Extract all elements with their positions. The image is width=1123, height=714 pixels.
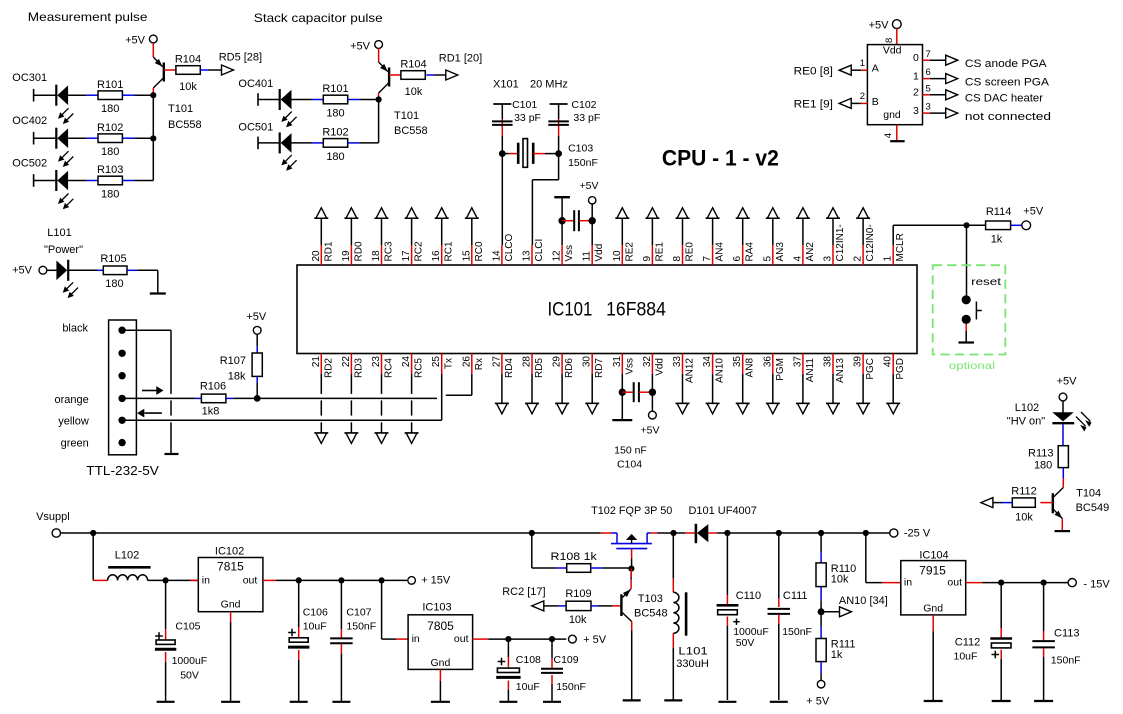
svg-text:7: 7	[702, 256, 713, 262]
svg-text:16: 16	[431, 250, 442, 262]
svg-text:Vdd: Vdd	[594, 244, 605, 262]
svg-text:optional: optional	[949, 360, 995, 372]
svg-text:1: 1	[883, 256, 894, 262]
svg-text:50V: 50V	[180, 670, 199, 682]
svg-text:10uF: 10uF	[954, 651, 978, 663]
svg-text:Gnd: Gnd	[923, 603, 943, 615]
svg-text:RE1 [9]: RE1 [9]	[794, 99, 833, 111]
svg-text:AN12: AN12	[685, 358, 696, 383]
svg-text:AN8: AN8	[745, 358, 756, 378]
svg-text:8: 8	[884, 38, 895, 43]
svg-text:Gnd: Gnd	[430, 657, 450, 669]
svg-text:OC402: OC402	[12, 115, 47, 127]
svg-text:MCLR: MCLR	[895, 233, 906, 261]
svg-text:Measurement pulse: Measurement pulse	[28, 10, 148, 24]
svg-text:OC501: OC501	[238, 121, 273, 133]
svg-text:RE2: RE2	[624, 242, 635, 262]
svg-text:C104: C104	[617, 459, 642, 471]
svg-text:OC502: OC502	[12, 158, 47, 170]
svg-text:T101: T101	[394, 110, 419, 122]
svg-text:10k: 10k	[405, 86, 423, 98]
svg-text:B: B	[872, 96, 879, 108]
svg-text:PGM: PGM	[775, 358, 786, 381]
svg-text:RC0: RC0	[474, 241, 485, 261]
svg-text:T101: T101	[168, 103, 193, 115]
svg-text:C101: C101	[512, 99, 537, 111]
svg-text:BC548: BC548	[634, 608, 668, 620]
svg-text:11: 11	[582, 251, 593, 262]
svg-text:R101: R101	[97, 79, 123, 91]
svg-text:RC2 [17]: RC2 [17]	[502, 586, 545, 598]
svg-text:+5V: +5V	[580, 180, 599, 192]
svg-text:180: 180	[326, 108, 344, 120]
svg-text:Tx: Tx	[444, 358, 455, 369]
svg-text:18k: 18k	[228, 371, 246, 383]
svg-text:Vsuppl: Vsuppl	[36, 511, 70, 523]
svg-text:-25 V: -25 V	[904, 528, 931, 540]
svg-text:1k: 1k	[991, 233, 1003, 245]
svg-text:33 pF: 33 pF	[514, 112, 541, 124]
svg-text:in: in	[904, 577, 912, 589]
svg-text:not connected: not connected	[965, 111, 1051, 123]
svg-text:gnd: gnd	[883, 109, 901, 121]
svg-text:AN11: AN11	[805, 358, 816, 383]
svg-text:RD3: RD3	[353, 358, 364, 378]
svg-text:9: 9	[642, 256, 653, 262]
svg-text:+5V: +5V	[1023, 206, 1044, 218]
svg-text:150nF: 150nF	[556, 681, 586, 693]
svg-text:C109: C109	[554, 654, 579, 666]
svg-text:35: 35	[732, 356, 743, 368]
svg-text:PGD: PGD	[895, 358, 906, 380]
svg-text:330uH: 330uH	[676, 658, 709, 670]
svg-text:Vdd: Vdd	[883, 45, 902, 57]
svg-text:23: 23	[371, 356, 382, 368]
svg-text:out: out	[454, 633, 469, 645]
svg-text:7: 7	[926, 49, 931, 60]
svg-text:C111: C111	[783, 590, 808, 602]
svg-text:15: 15	[461, 250, 472, 262]
svg-text:IC102: IC102	[215, 546, 244, 558]
svg-text:C106: C106	[303, 607, 328, 619]
svg-text:in: in	[202, 575, 210, 587]
svg-text:+ 15V: + 15V	[421, 575, 451, 587]
svg-text:CLCO: CLCO	[504, 233, 515, 261]
svg-text:RD4: RD4	[504, 358, 515, 378]
svg-text:- 15V: - 15V	[1083, 579, 1110, 591]
svg-text:R108 1k: R108 1k	[551, 551, 598, 563]
svg-text:4: 4	[792, 256, 803, 262]
svg-text:Vdd: Vdd	[654, 358, 665, 376]
svg-text:C102: C102	[571, 99, 596, 111]
svg-text:L101: L101	[678, 646, 707, 658]
svg-text:150nF: 150nF	[1051, 655, 1081, 667]
svg-text:T102 FQP 3P 50: T102 FQP 3P 50	[591, 505, 672, 517]
svg-text:yellow: yellow	[58, 416, 89, 428]
svg-text:R101: R101	[322, 83, 348, 95]
svg-text:33: 33	[672, 356, 683, 368]
svg-text:IC104: IC104	[919, 550, 948, 562]
svg-text:AN10: AN10	[715, 358, 726, 383]
svg-text:10k: 10k	[831, 574, 849, 586]
svg-text:RD1 [20]: RD1 [20]	[439, 53, 482, 65]
svg-text:29: 29	[552, 356, 563, 368]
svg-text:+5V: +5V	[1057, 376, 1078, 388]
svg-text:27: 27	[491, 356, 502, 368]
svg-text:CS DAC heater: CS DAC heater	[965, 93, 1043, 105]
svg-text:10uF: 10uF	[516, 681, 540, 693]
svg-text:50V: 50V	[736, 637, 755, 649]
svg-text:12: 12	[552, 250, 563, 262]
svg-text:A: A	[872, 63, 879, 75]
svg-text:RD7: RD7	[594, 358, 605, 378]
svg-text:R112: R112	[1011, 485, 1036, 497]
svg-text:CS screen PGA: CS screen PGA	[965, 76, 1050, 88]
svg-text:Vss: Vss	[624, 358, 635, 375]
svg-text:RC4: RC4	[384, 358, 395, 378]
svg-text:CPU - 1 - v2: CPU - 1 - v2	[662, 146, 779, 171]
svg-text:AN2: AN2	[805, 242, 816, 262]
svg-text:RE1: RE1	[654, 242, 665, 262]
svg-text:R105: R105	[100, 253, 126, 265]
svg-text:10k: 10k	[179, 81, 197, 93]
svg-text:"Power": "Power"	[44, 244, 83, 256]
svg-text:3: 3	[823, 256, 834, 262]
svg-text:10k: 10k	[569, 614, 587, 626]
svg-text:L101: L101	[47, 227, 71, 239]
svg-text:TTL-232-5V: TTL-232-5V	[86, 464, 159, 478]
svg-text:+5V: +5V	[869, 20, 890, 32]
svg-text:AN13: AN13	[835, 358, 846, 383]
svg-text:31: 31	[612, 356, 623, 368]
svg-text:Stack capacitor pulse: Stack capacitor pulse	[254, 11, 383, 25]
svg-text:RC2: RC2	[414, 241, 425, 261]
svg-text:1k8: 1k8	[202, 406, 220, 418]
svg-text:1000uF: 1000uF	[172, 655, 208, 667]
svg-text:C113: C113	[1054, 628, 1079, 640]
svg-text:38: 38	[823, 356, 834, 368]
svg-text:C103: C103	[568, 143, 593, 155]
svg-text:IC103: IC103	[422, 602, 451, 614]
svg-text:7815: 7815	[217, 560, 244, 574]
svg-text:7915: 7915	[919, 564, 946, 578]
svg-text:+5V: +5V	[350, 41, 371, 53]
svg-text:R106: R106	[200, 381, 226, 393]
svg-text:30: 30	[582, 356, 593, 368]
svg-text:R113: R113	[1028, 448, 1053, 460]
svg-text:10: 10	[612, 250, 623, 262]
svg-text:34: 34	[702, 356, 713, 368]
svg-text:"HV on": "HV on"	[1007, 416, 1045, 428]
svg-text:RD5 [28]: RD5 [28]	[219, 52, 262, 64]
svg-text:R109: R109	[565, 588, 591, 600]
svg-text:21: 21	[311, 356, 322, 368]
svg-text:in: in	[412, 633, 420, 645]
svg-text:13: 13	[522, 250, 533, 262]
svg-text:RD1: RD1	[323, 241, 334, 261]
svg-text:150nF: 150nF	[568, 157, 598, 169]
svg-text:1k: 1k	[831, 649, 843, 661]
svg-text:2: 2	[853, 256, 864, 262]
svg-text:24: 24	[401, 356, 412, 368]
svg-text:6: 6	[732, 256, 743, 262]
svg-text:OC401: OC401	[238, 78, 273, 90]
svg-text:5: 5	[926, 83, 931, 94]
svg-text:180: 180	[1034, 460, 1052, 472]
svg-text:RD5: RD5	[534, 358, 545, 378]
svg-text:5: 5	[762, 256, 773, 262]
svg-text:180: 180	[101, 103, 119, 115]
svg-text:R104: R104	[400, 59, 426, 71]
svg-text:T103: T103	[638, 593, 663, 605]
svg-text:22: 22	[341, 356, 352, 368]
svg-text:AN10 [34]: AN10 [34]	[839, 595, 888, 607]
svg-text:2: 2	[860, 91, 865, 102]
svg-text:BC558: BC558	[394, 125, 428, 137]
svg-text:10k: 10k	[1015, 512, 1033, 524]
svg-text:AN3: AN3	[775, 242, 786, 262]
svg-text:RD0: RD0	[353, 241, 364, 261]
svg-text:150nF: 150nF	[346, 621, 376, 633]
svg-text:0: 0	[913, 52, 919, 64]
svg-text:18: 18	[371, 250, 382, 262]
svg-text:R102: R102	[97, 122, 123, 134]
svg-text:BC558: BC558	[168, 119, 202, 131]
svg-text:39: 39	[853, 356, 864, 368]
svg-text:CLCI: CLCI	[534, 239, 545, 262]
svg-text:20: 20	[311, 250, 322, 262]
svg-text:36: 36	[762, 356, 773, 368]
svg-text:out: out	[243, 575, 258, 587]
svg-text:PGC: PGC	[865, 358, 876, 380]
svg-text:RE0 [8]: RE0 [8]	[794, 65, 833, 77]
svg-text:Rx: Rx	[474, 358, 485, 370]
svg-text:T104: T104	[1076, 488, 1101, 500]
svg-text:C12IN1-: C12IN1-	[835, 224, 846, 261]
svg-text:37: 37	[792, 356, 803, 368]
svg-text:4: 4	[883, 133, 894, 138]
svg-text:3: 3	[926, 102, 931, 113]
svg-text:180: 180	[105, 278, 123, 290]
svg-text:+5V: +5V	[12, 265, 33, 277]
svg-text:14: 14	[491, 250, 502, 262]
svg-text:150 nF: 150 nF	[614, 445, 647, 457]
svg-text:+ 5V: + 5V	[806, 696, 830, 708]
svg-text:R103: R103	[97, 164, 123, 176]
svg-text:3: 3	[913, 105, 919, 117]
svg-text:C110: C110	[736, 590, 761, 602]
svg-text:RD2: RD2	[323, 358, 334, 378]
svg-text:RC3: RC3	[384, 241, 395, 261]
svg-text:1: 1	[913, 71, 919, 83]
svg-text:C12IN0-: C12IN0-	[865, 224, 876, 261]
svg-text:Gnd: Gnd	[221, 599, 241, 611]
svg-text:RA4: RA4	[745, 242, 756, 262]
svg-text:19: 19	[341, 250, 352, 262]
svg-text:green: green	[61, 438, 89, 450]
svg-text:1: 1	[860, 58, 865, 69]
svg-text:20 MHz: 20 MHz	[530, 79, 568, 91]
svg-text:150nF: 150nF	[782, 626, 812, 638]
svg-text:OC301: OC301	[12, 72, 47, 84]
svg-text:L102: L102	[115, 550, 139, 562]
svg-text:26: 26	[461, 356, 472, 368]
svg-text:D101 UF4007: D101 UF4007	[689, 505, 757, 517]
svg-text:+5V: +5V	[125, 35, 146, 47]
svg-text:R107: R107	[220, 355, 246, 367]
svg-text:+ 5V: + 5V	[583, 634, 607, 646]
svg-text:out: out	[947, 577, 962, 589]
svg-text:8: 8	[672, 256, 683, 262]
svg-text:+5V: +5V	[641, 425, 660, 437]
svg-text:10uF: 10uF	[303, 621, 327, 633]
svg-text:RD6: RD6	[564, 358, 575, 378]
svg-text:6: 6	[926, 67, 931, 78]
svg-text:C105: C105	[175, 621, 200, 633]
svg-text:BC549: BC549	[1076, 502, 1110, 514]
svg-text:RC5: RC5	[414, 358, 425, 378]
svg-text:C107: C107	[346, 607, 371, 619]
svg-text:40: 40	[883, 356, 894, 368]
svg-text:X101: X101	[493, 79, 519, 91]
svg-text:C108: C108	[516, 654, 541, 666]
svg-text:reset: reset	[971, 276, 1001, 288]
svg-text:33 pF: 33 pF	[573, 112, 600, 124]
svg-text:16F884: 16F884	[606, 300, 666, 321]
svg-text:180: 180	[101, 146, 119, 158]
svg-text:RE0: RE0	[685, 242, 696, 262]
svg-text:orange: orange	[55, 394, 89, 406]
svg-text:180: 180	[326, 151, 344, 163]
svg-text:180: 180	[101, 189, 119, 201]
svg-text:black: black	[62, 322, 88, 334]
svg-text:25: 25	[431, 356, 442, 368]
svg-text:IC101: IC101	[548, 300, 593, 321]
svg-text:R102: R102	[322, 127, 348, 139]
svg-text:L102: L102	[1015, 402, 1039, 414]
svg-text:R114: R114	[986, 206, 1011, 218]
svg-text:+5V: +5V	[246, 311, 267, 323]
svg-text:C112: C112	[955, 637, 980, 649]
svg-text:AN4: AN4	[715, 242, 726, 262]
svg-text:28: 28	[522, 356, 533, 368]
svg-text:2: 2	[913, 87, 919, 99]
svg-text:17: 17	[401, 250, 412, 262]
svg-text:R104: R104	[175, 54, 201, 66]
svg-text:Vss: Vss	[564, 245, 575, 262]
svg-text:RC1: RC1	[444, 241, 455, 261]
svg-text:7805: 7805	[427, 619, 454, 633]
svg-text:CS anode PGA: CS anode PGA	[965, 58, 1047, 70]
svg-text:32: 32	[642, 356, 653, 368]
